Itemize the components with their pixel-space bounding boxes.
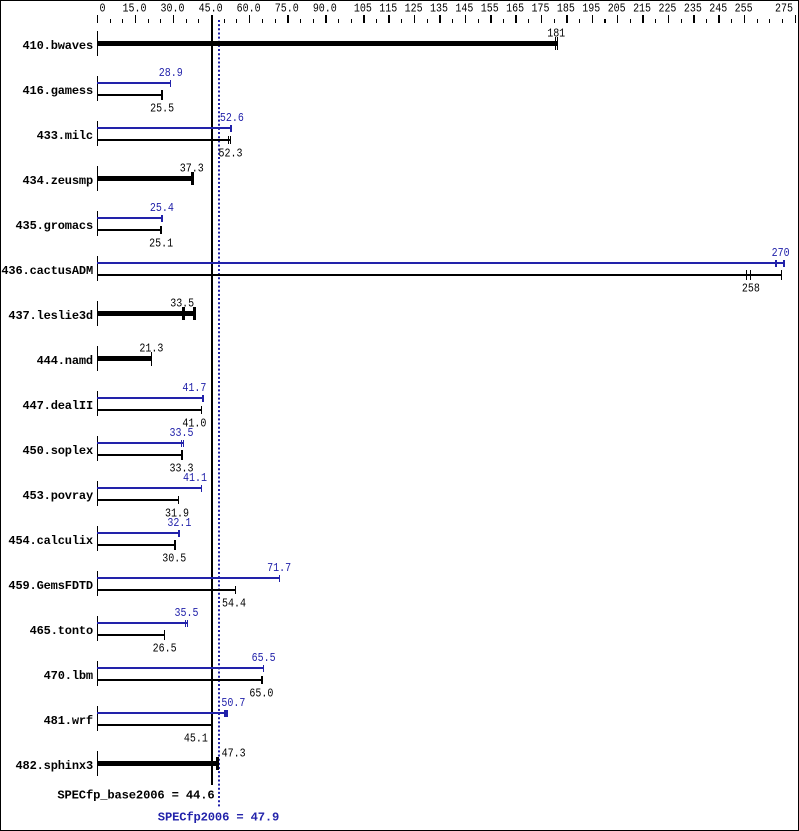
svg-text:470.lbm: 470.lbm [44, 669, 93, 683]
peak bar 459.GemsFDTD [97, 575, 280, 582]
base bar 470.lbm [97, 676, 263, 684]
svg-text:454.calculix: 454.calculix [8, 534, 93, 548]
base bar 434.zeusmp [97, 172, 194, 185]
SPECfp_base2006 reference line (44.6) [211, 15, 213, 785]
svg-text:90.0: 90.0 [313, 2, 337, 16]
svg-text:75.0: 75.0 [275, 2, 299, 16]
peak bar 481.wrf [97, 710, 228, 717]
svg-text:28.9: 28.9 [159, 66, 183, 80]
svg-text:175: 175 [532, 2, 550, 16]
x-axis major ticks [97, 15, 796, 23]
svg-text:195: 195 [582, 2, 600, 16]
row axis stub 416.gamess [97, 76, 98, 101]
row axis stub 454.calculix [97, 526, 98, 551]
peak bar 435.gromacs [97, 215, 163, 222]
svg-text:435.gromacs: 435.gromacs [16, 219, 94, 233]
base bar 482.sphinx3 [97, 757, 219, 770]
svg-text:54.4: 54.4 [222, 597, 246, 611]
svg-text:33.5: 33.5 [170, 297, 194, 311]
svg-text:145: 145 [455, 2, 473, 16]
svg-text:SPECfp2006 = 47.9: SPECfp2006 = 47.9 [158, 811, 279, 825]
svg-text:21.3: 21.3 [139, 342, 163, 356]
x-axis minor ticks [110, 19, 783, 23]
svg-text:275: 275 [775, 2, 793, 16]
svg-text:444.namd: 444.namd [37, 354, 93, 368]
svg-text:465.tonto: 465.tonto [30, 624, 93, 638]
base bar 416.gamess [97, 90, 163, 100]
row axis stub 450.soplex [97, 436, 98, 461]
svg-text:71.7: 71.7 [267, 561, 291, 575]
svg-text:459.GemsFDTD: 459.GemsFDTD [8, 579, 93, 593]
peak bar 453.povray [97, 485, 202, 492]
svg-text:258: 258 [742, 282, 760, 296]
base bar 481.wrf [97, 720, 213, 730]
svg-text:60.0: 60.0 [237, 2, 261, 16]
base bar 453.povray [97, 496, 179, 504]
svg-text:416.gamess: 416.gamess [23, 84, 94, 98]
svg-text:437.leslie3d: 437.leslie3d [8, 309, 93, 323]
base bar 436.cactusADM [97, 270, 782, 280]
peak bar 436.cactusADM [97, 260, 785, 267]
svg-text:245: 245 [709, 2, 727, 16]
svg-text:15.0: 15.0 [122, 2, 146, 16]
peak bar 416.gamess [97, 80, 171, 87]
SPECfp2006 reference line (47.9, dotted) [218, 20, 220, 807]
svg-text:270: 270 [772, 246, 790, 260]
base bar 444.namd [97, 352, 152, 366]
row axis stub 447.dealII [97, 391, 98, 416]
row axis stub 433.milc [97, 121, 98, 146]
svg-text:135: 135 [430, 2, 448, 16]
svg-text:37.3: 37.3 [180, 162, 204, 176]
row axis stub 465.tonto [97, 616, 98, 641]
svg-text:235: 235 [684, 2, 702, 16]
row axis stub 459.GemsFDTD [97, 571, 98, 596]
peak bar 450.soplex [97, 440, 184, 447]
svg-text:47.3: 47.3 [222, 747, 246, 761]
peak bar 465.tonto [97, 620, 188, 627]
svg-text:447.dealII: 447.dealII [23, 399, 94, 413]
svg-text:52.3: 52.3 [219, 147, 243, 161]
svg-text:450.soplex: 450.soplex [23, 444, 94, 458]
row axis stub 453.povray [97, 481, 98, 506]
svg-text:453.povray: 453.povray [23, 489, 94, 503]
svg-text:482.sphinx3: 482.sphinx3 [16, 759, 94, 773]
svg-text:105: 105 [354, 2, 372, 16]
svg-text:35.5: 35.5 [175, 606, 199, 620]
base bar 410.bwaves [97, 37, 558, 50]
row axis stub 437.leslie3d [97, 301, 98, 326]
peak bar 454.calculix [97, 530, 180, 537]
row axis stub 481.wrf [97, 706, 98, 731]
row axis stub 444.namd [97, 346, 98, 371]
svg-text:50.7: 50.7 [221, 696, 245, 710]
svg-text:25.1: 25.1 [149, 237, 173, 251]
row axis stub 435.gromacs [97, 211, 98, 236]
base bar 437.leslie3d [97, 307, 196, 320]
svg-text:255: 255 [735, 2, 753, 16]
svg-text:225: 225 [658, 2, 676, 16]
svg-text:434.zeusmp: 434.zeusmp [23, 174, 94, 188]
row axis stub 434.zeusmp [97, 166, 98, 191]
svg-text:65.0: 65.0 [249, 687, 273, 701]
svg-text:30.5: 30.5 [162, 552, 186, 566]
svg-text:215: 215 [633, 2, 651, 16]
svg-text:25.4: 25.4 [150, 201, 174, 215]
row axis stub 436.cactusADM [97, 256, 98, 281]
svg-text:125: 125 [405, 2, 423, 16]
svg-text:433.milc: 433.milc [37, 129, 93, 143]
svg-text:25.5: 25.5 [150, 102, 174, 116]
peak bar 447.dealII [97, 395, 204, 402]
base bar 465.tonto [97, 630, 165, 640]
x-axis scale labels [100, 2, 794, 16]
svg-text:205: 205 [608, 2, 626, 16]
svg-text:52.6: 52.6 [220, 111, 244, 125]
svg-text:41.7: 41.7 [182, 381, 206, 395]
row axis stub 482.sphinx3 [97, 751, 98, 776]
svg-text:41.1: 41.1 [183, 471, 207, 485]
base bar 435.gromacs [97, 226, 162, 234]
svg-text:45.0: 45.0 [199, 2, 223, 16]
base bar 450.soplex [97, 450, 183, 460]
svg-text:185: 185 [557, 2, 575, 16]
svg-text:65.5: 65.5 [252, 651, 276, 665]
svg-text:410.bwaves: 410.bwaves [23, 39, 94, 53]
svg-text:30.0: 30.0 [161, 2, 185, 16]
row axis stub 470.lbm [97, 661, 98, 686]
svg-text:155: 155 [481, 2, 499, 16]
base bar 454.calculix [97, 540, 176, 550]
svg-text:481.wrf: 481.wrf [44, 714, 93, 728]
svg-text:0: 0 [100, 2, 106, 16]
svg-text:32.1: 32.1 [167, 516, 191, 530]
svg-text:33.5: 33.5 [170, 426, 194, 440]
svg-text:SPECfp_base2006 = 44.6: SPECfp_base2006 = 44.6 [57, 789, 214, 803]
base bar 447.dealII [97, 406, 202, 414]
peak bar 470.lbm [97, 665, 264, 672]
peak bar 433.milc [97, 125, 232, 132]
svg-text:115: 115 [379, 2, 397, 16]
base bar 459.GemsFDTD [97, 586, 236, 594]
svg-text:45.1: 45.1 [184, 732, 208, 746]
svg-text:26.5: 26.5 [153, 642, 177, 656]
svg-text:165: 165 [506, 2, 524, 16]
row axis stub 410.bwaves [97, 31, 98, 56]
svg-text:181: 181 [547, 27, 565, 41]
svg-text:436.cactusADM: 436.cactusADM [1, 264, 93, 278]
base bar 433.milc [97, 136, 231, 144]
